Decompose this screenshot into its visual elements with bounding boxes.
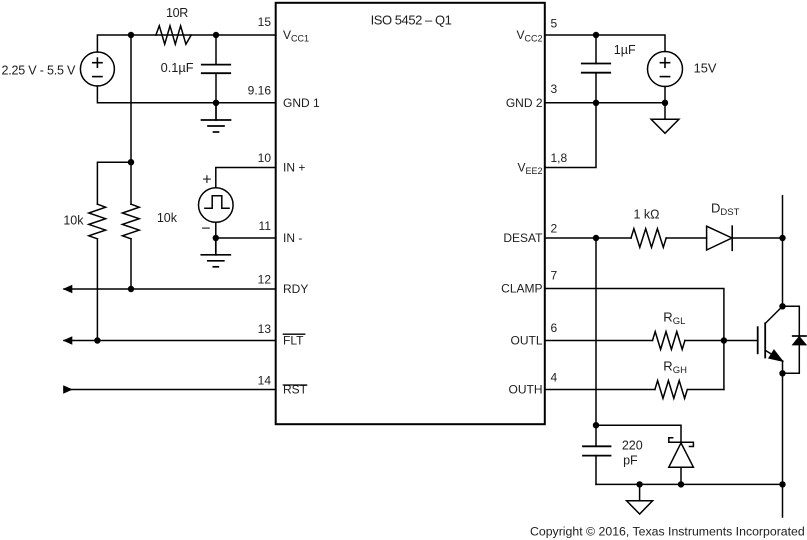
svg-text:7: 7 xyxy=(551,268,558,282)
node DESAT junction xyxy=(593,235,599,241)
svg-text:ISO 5452 – Q1: ISO 5452 – Q1 xyxy=(371,12,452,27)
svg-text:2: 2 xyxy=(551,222,558,236)
node VCC1/cap junction xyxy=(213,32,219,38)
node 220pF top junction xyxy=(593,422,599,428)
svg-text:15: 15 xyxy=(258,15,272,29)
svg-text:CLAMP: CLAMP xyxy=(501,282,542,296)
svg-text:GND 2: GND 2 xyxy=(506,96,543,110)
wire GND2 rail xyxy=(545,102,665,104)
ground (triangle) below bottom rail xyxy=(627,484,653,514)
svg-text:GND 1: GND 1 xyxy=(283,96,320,110)
wire vertical from VCC1 rail down to 10k junction xyxy=(130,35,132,162)
svg-text:1µF: 1µF xyxy=(614,43,636,57)
svg-text:12: 12 xyxy=(258,273,272,287)
svg-text:OUTL: OUTL xyxy=(510,334,542,348)
node GND2/15V junction xyxy=(662,100,668,106)
wire IN- from pulse source to pin 11 xyxy=(216,222,276,238)
svg-text:IN -: IN - xyxy=(283,231,302,245)
wire bottom rail xyxy=(596,483,783,485)
svg-text:OUTH: OUTH xyxy=(509,383,543,397)
resistor R 10R xyxy=(156,26,191,44)
svg-text:11: 11 xyxy=(259,219,272,233)
wire VCC1 rail from source to IC pin 15 xyxy=(97,35,275,52)
wire diode to collector bus xyxy=(732,237,782,239)
svg-text:13: 13 xyxy=(258,322,272,336)
svg-text:Copyright © 2016, Texas Instru: Copyright © 2016, Texas Instruments Inco… xyxy=(530,524,805,538)
wire 1k to diode xyxy=(666,237,706,239)
node rail/emitter junction xyxy=(779,481,785,487)
resistor RGL xyxy=(653,332,685,350)
wire left 10k bottom lead down to FLT xyxy=(96,239,98,341)
svg-text:4: 4 xyxy=(551,371,558,385)
wire collector bus vertical (top stub) xyxy=(782,196,784,306)
wire 220pF node to zener xyxy=(596,425,681,442)
ground (signal) below 0.1uF xyxy=(202,103,231,132)
svg-text:9.16: 9.16 xyxy=(248,83,272,97)
IC U1 ISO5452-Q1 body xyxy=(276,3,545,424)
svg-text:FLT: FLT xyxy=(283,334,304,348)
ground (signal) below pulse source xyxy=(201,238,230,267)
wire RGH to clamp vertical xyxy=(687,389,724,391)
wire emitter down to rail xyxy=(782,373,784,484)
voltage source V2 15V xyxy=(648,52,683,103)
svg-text:10k: 10k xyxy=(157,211,178,225)
node RDY junction xyxy=(128,286,134,292)
node VCC2/cap junction xyxy=(593,32,599,38)
wire GND1 rail from source bottom to IC pin 9.16 xyxy=(97,86,275,103)
svg-text:+: + xyxy=(202,172,211,189)
svg-text:10: 10 xyxy=(258,151,272,165)
arrow RDY (left) xyxy=(63,285,73,294)
capacitor 1uF xyxy=(582,35,610,103)
node GND2/cap junction xyxy=(593,100,599,106)
svg-text:−: − xyxy=(201,221,210,238)
svg-text:10k: 10k xyxy=(63,214,84,228)
wire right 10k bottom lead down to RDY xyxy=(130,239,132,289)
wire FLT line with arrow xyxy=(64,340,276,342)
node gate junction xyxy=(721,337,727,343)
wire RST line with arrow xyxy=(64,389,276,391)
wire DESAT line xyxy=(545,237,631,239)
svg-text:0.1µF: 0.1µF xyxy=(161,60,194,75)
node DESAT/collector junction xyxy=(779,235,785,241)
arrow FLT (left) xyxy=(63,336,73,345)
ground (triangle) below 15V source xyxy=(651,103,679,134)
wire VEE2 riser to GND2 xyxy=(545,103,596,168)
node VCC1/10k junction xyxy=(128,32,134,38)
wire RDY line with arrow xyxy=(64,288,276,290)
node rail/zener junction xyxy=(678,481,684,487)
wire OUTH line to RGH xyxy=(545,389,655,391)
svg-text:pF: pF xyxy=(623,453,638,467)
node junction dots xyxy=(94,32,786,488)
wire emitter below rail xyxy=(782,484,784,517)
svg-text:10R: 10R xyxy=(166,6,188,20)
wire gate node to IGBT gate xyxy=(724,340,757,342)
node 10k split junction xyxy=(128,159,134,165)
node collector/diode junction xyxy=(779,303,785,309)
svg-text:IN +: IN + xyxy=(283,161,305,175)
resistor R2 10k (left, vertical) xyxy=(89,204,106,239)
svg-text:RDY: RDY xyxy=(283,282,308,296)
node emitter/diode junction xyxy=(779,370,785,376)
node IN- junction xyxy=(213,235,219,241)
svg-text:DESAT: DESAT xyxy=(503,231,543,245)
wire VCC2 rail to 15V source xyxy=(545,35,665,52)
capacitor 0.1uF xyxy=(202,35,230,103)
capacitor 220pF xyxy=(583,425,611,484)
wire DESAT branch down to 220pF node xyxy=(595,238,597,425)
node rail/ground junction xyxy=(636,481,642,487)
diode D_DST xyxy=(707,226,733,250)
transistor Q1 IGBT xyxy=(758,306,783,373)
diode freewheel across IGBT xyxy=(783,306,807,373)
wire CLAMP line xyxy=(545,289,724,390)
pulse source VIN xyxy=(199,188,234,223)
voltage source V1 2.25-5.5V xyxy=(80,52,114,86)
svg-text:1 kΩ: 1 kΩ xyxy=(633,208,659,222)
wire OUTL line to RGL xyxy=(545,340,653,342)
wire IN+ from pulse source to pin 10 xyxy=(216,168,276,188)
resistor RGH xyxy=(655,381,687,399)
wire right 10k top lead xyxy=(130,162,132,204)
resistor R4 1k xyxy=(631,229,666,248)
wire RGL to gate node xyxy=(685,340,724,342)
wire left branch of 10k junction xyxy=(97,162,131,204)
resistor R3 10k (right, vertical) xyxy=(122,204,139,239)
svg-text:14: 14 xyxy=(258,373,272,387)
arrow RST (right) xyxy=(63,385,72,394)
svg-text:15V: 15V xyxy=(694,61,717,76)
node FLT junction xyxy=(94,337,100,343)
svg-text:220: 220 xyxy=(622,439,643,453)
svg-text:2.25 V - 5.5 V: 2.25 V - 5.5 V xyxy=(2,63,76,77)
svg-text:5: 5 xyxy=(551,17,558,31)
zener diode DZ xyxy=(669,438,694,485)
svg-text:6: 6 xyxy=(551,321,558,335)
svg-text:1,8: 1,8 xyxy=(551,151,568,165)
svg-text:3: 3 xyxy=(551,82,558,96)
node GND1/cap junction xyxy=(213,100,219,106)
